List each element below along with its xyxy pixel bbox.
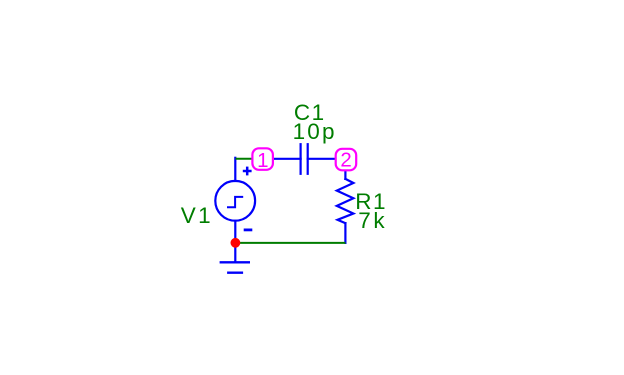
svg-text:10p: 10p (293, 119, 337, 144)
svg-text:V1: V1 (181, 203, 213, 228)
svg-text:7k: 7k (358, 208, 387, 233)
svg-text:1: 1 (257, 149, 268, 172)
svg-text:2: 2 (340, 148, 351, 171)
